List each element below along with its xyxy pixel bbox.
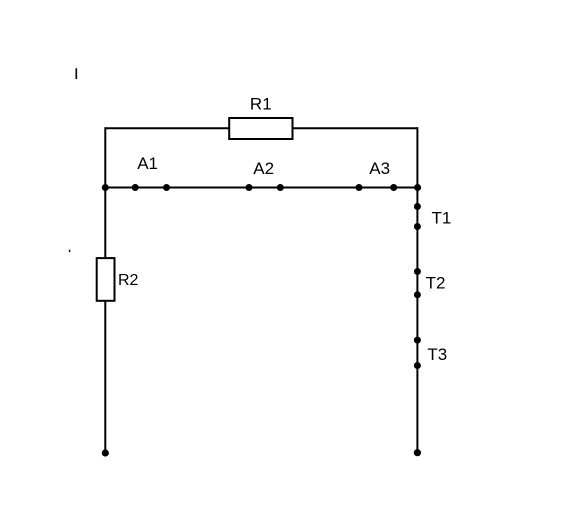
svg-text:T1: T1 (432, 209, 452, 228)
svg-text:A2: A2 (253, 159, 274, 178)
svg-text:A1: A1 (137, 154, 158, 173)
svg-text:R1: R1 (250, 95, 272, 114)
svg-text:T2: T2 (426, 274, 446, 293)
svg-text:R2: R2 (118, 272, 139, 289)
svg-text:A3: A3 (369, 159, 390, 178)
svg-text:T3: T3 (427, 345, 447, 364)
